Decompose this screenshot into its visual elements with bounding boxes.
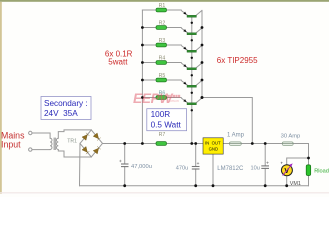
svg-text:R4: R4 bbox=[159, 56, 166, 62]
svg-text:R2: R2 bbox=[159, 21, 166, 27]
wire emitter row 6 bbox=[142, 97, 156, 99]
resistor R3 0.1R bbox=[156, 43, 167, 47]
resistor Rload bbox=[306, 165, 311, 176]
diode D3 lower-left bbox=[82, 147, 89, 155]
page top border bbox=[0, 0, 329, 2]
label R6 bbox=[159, 91, 166, 97]
label 470u bbox=[176, 166, 188, 172]
svg-text:R1: R1 bbox=[159, 3, 166, 9]
svg-text:47,000u: 47,000u bbox=[131, 164, 152, 170]
resistor R6 0.1R bbox=[156, 96, 167, 100]
svg-text:R3: R3 bbox=[159, 38, 166, 44]
bridge rectifier diamond bbox=[80, 130, 103, 157]
annotation 6x 0.1R 5watt bbox=[105, 50, 133, 67]
svg-text:24V 35A: 24V 35A bbox=[44, 109, 78, 118]
label R3 bbox=[159, 38, 166, 44]
svg-text:TR1: TR1 bbox=[67, 139, 77, 145]
svg-text:.com.cn: .com.cn bbox=[168, 99, 179, 103]
resistor R4 0.1R bbox=[156, 61, 167, 65]
label 30 Amp bbox=[281, 134, 301, 140]
wire Rload bottom lead bbox=[308, 175, 310, 185]
wire secondary top lead bbox=[58, 130, 91, 138]
page bottom faint line bbox=[0, 192, 329, 193]
svg-text:LM7812C: LM7812C bbox=[217, 166, 244, 172]
wire emitter row 4 bbox=[142, 62, 156, 64]
transistor Q4 TIP2955 bbox=[181, 63, 202, 70]
label Rload bbox=[314, 168, 329, 174]
resistor R5 0.1R bbox=[156, 78, 167, 82]
transistor Q1 TIP2955 bbox=[181, 10, 202, 17]
svg-text:Rload: Rload bbox=[314, 168, 329, 174]
label LM7812C bbox=[217, 166, 244, 172]
capacitor C3 10u bbox=[261, 162, 269, 169]
capacitor C1 47000u bbox=[119, 160, 128, 167]
voltmeter VM1 bbox=[280, 161, 292, 176]
wire left input rail bbox=[141, 10, 143, 144]
label TR1 bbox=[67, 139, 77, 145]
svg-text:VM1: VM1 bbox=[290, 181, 301, 187]
wire ground rail bbox=[80, 185, 309, 187]
watermark EEPW bbox=[133, 91, 180, 106]
label 10u bbox=[251, 165, 260, 171]
wire bridge minus lead bbox=[79, 143, 82, 185]
label 47000u bbox=[131, 164, 152, 170]
diode D1 upper-left bbox=[82, 133, 89, 141]
wire main positive rail bbox=[103, 143, 157, 145]
svg-text:1 Amp: 1 Amp bbox=[227, 132, 245, 138]
svg-text:GND: GND bbox=[209, 146, 219, 151]
fuse F2 30 Amp bbox=[282, 142, 293, 146]
svg-text:0.5 Watt: 0.5 Watt bbox=[151, 121, 182, 130]
wire primary top lead bbox=[32, 133, 50, 138]
wire collector feed to output bbox=[202, 98, 252, 144]
callout box 100R 0.5 Watt bbox=[147, 109, 187, 131]
fuse F1 1 Amp bbox=[229, 142, 241, 146]
diode D2 upper-right bbox=[93, 133, 101, 141]
label R2 bbox=[159, 21, 166, 27]
wire secondary bottom lead bbox=[58, 150, 91, 158]
annotation 6x TIP2955 bbox=[217, 56, 258, 65]
svg-text:+: + bbox=[280, 161, 283, 166]
label R4 bbox=[159, 56, 166, 62]
transistor Q2 TIP2955 bbox=[181, 28, 202, 35]
diode D4 lower-right bbox=[93, 146, 101, 154]
wire C3 leads bbox=[264, 144, 266, 166]
capacitor C2 470u bbox=[192, 162, 200, 169]
wire voltmeter bottom lead bbox=[286, 176, 288, 186]
resistor R1 0.1R bbox=[156, 8, 167, 12]
label VM1 bbox=[290, 181, 301, 187]
resistor R7 100R bbox=[156, 142, 167, 146]
wire emitter row 2 bbox=[142, 27, 156, 29]
svg-text:10u: 10u bbox=[251, 165, 260, 171]
annotation Mains Input bbox=[1, 131, 25, 150]
transistor Q6 TIP2955 bbox=[181, 98, 202, 105]
wire C1 leads bbox=[124, 144, 126, 164]
label R7 bbox=[159, 132, 166, 138]
callout box Secondary 24V 35A bbox=[41, 97, 91, 120]
svg-text:Secondary :: Secondary : bbox=[44, 99, 88, 108]
wire regulator gnd lead bbox=[212, 154, 214, 186]
wire emitter row 1 bbox=[142, 9, 156, 11]
svg-text:IN OUT: IN OUT bbox=[205, 140, 221, 145]
wire emitter row 3 bbox=[142, 44, 156, 46]
wire C2 leads bbox=[195, 144, 197, 167]
wire emitter row 5 bbox=[142, 79, 156, 81]
transformer TR1 bbox=[29, 131, 59, 151]
transistor Q5 TIP2955 bbox=[181, 80, 202, 87]
resistor R2 0.1R bbox=[156, 26, 167, 30]
transistor Q3 TIP2955 bbox=[181, 45, 202, 52]
svg-text:6x TIP2955: 6x TIP2955 bbox=[217, 56, 258, 65]
label 1 Amp bbox=[227, 132, 245, 138]
page left border bbox=[0, 2, 2, 194]
svg-text:Input: Input bbox=[1, 139, 21, 149]
wire common base bus bbox=[191, 17, 193, 144]
wire right collector rail bbox=[201, 10, 203, 97]
label R5 bbox=[159, 73, 166, 79]
label R1 bbox=[159, 3, 166, 9]
svg-text:470u: 470u bbox=[176, 166, 188, 172]
svg-text:R5: R5 bbox=[159, 73, 166, 79]
svg-text:5watt: 5watt bbox=[108, 57, 128, 66]
svg-text:30 Amp: 30 Amp bbox=[281, 134, 301, 140]
svg-text:100R: 100R bbox=[151, 110, 171, 119]
wire primary bottom lead bbox=[32, 149, 50, 151]
svg-text:R7: R7 bbox=[159, 132, 166, 138]
regulator U1 LM7812C bbox=[203, 138, 223, 154]
wire voltmeter branch bbox=[287, 158, 309, 165]
